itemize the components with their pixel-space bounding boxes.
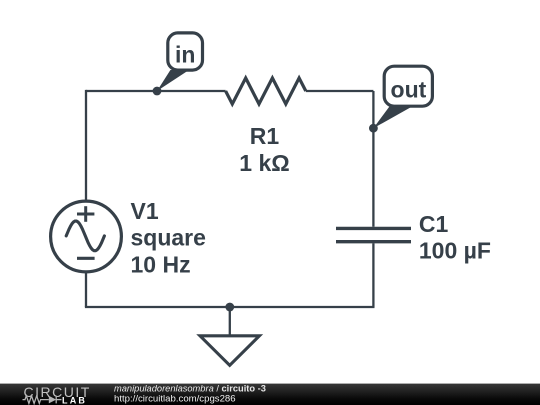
wire right vertical lower <box>372 243 374 307</box>
node out dot <box>369 124 378 133</box>
svg-text:C1: C1 <box>419 211 449 237</box>
ground symbol <box>200 336 259 366</box>
wire top-right horizontal <box>306 90 374 92</box>
svg-text:LAB: LAB <box>62 396 87 405</box>
svg-text:manipuladorenlasombra / circui: manipuladorenlasombra / circuito -3 <box>114 384 266 394</box>
wire left vertical <box>85 90 87 202</box>
svg-text:in: in <box>175 41 195 67</box>
svg-text:V1: V1 <box>131 198 159 224</box>
wire left-bottom vertical <box>85 272 87 308</box>
ground stub wire <box>229 307 231 335</box>
voltage source V1 <box>51 201 122 272</box>
svg-text:square: square <box>131 225 206 251</box>
footer bar <box>0 384 540 405</box>
callout out box <box>384 66 432 106</box>
callout in tail <box>157 70 189 91</box>
capacitor C1 <box>336 228 411 241</box>
wire right vertical upper <box>372 91 374 227</box>
svg-text:10 Hz: 10 Hz <box>131 252 191 278</box>
svg-text:out: out <box>391 76 427 102</box>
wire top-left horizontal <box>86 90 226 92</box>
callout out tail <box>373 106 413 128</box>
node in dot <box>153 87 162 96</box>
resistor R1 <box>226 78 306 104</box>
callout in box <box>168 33 203 70</box>
wire bottom horizontal <box>85 306 375 308</box>
svg-text:1 kΩ: 1 kΩ <box>239 150 289 176</box>
logo diode triangle <box>49 396 56 404</box>
svg-text:R1: R1 <box>250 123 280 149</box>
logo wire with resistor and diode <box>23 396 62 404</box>
svg-text:100 µF: 100 µF <box>419 238 491 264</box>
junction node ground <box>225 303 234 312</box>
svg-text:http://circuitlab.com/cpgs286: http://circuitlab.com/cpgs286 <box>114 393 236 404</box>
